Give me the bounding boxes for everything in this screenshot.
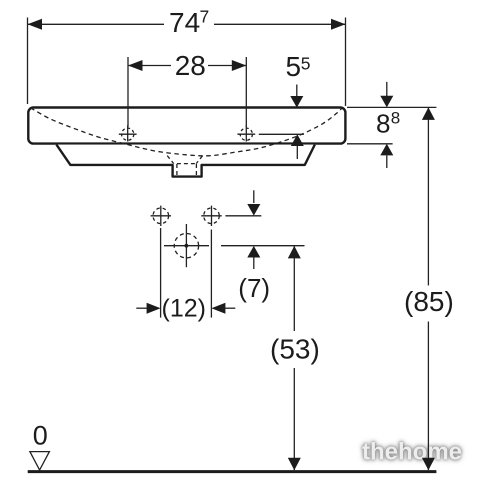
svg-text:5: 5 xyxy=(301,53,311,73)
extension line right 74.7 xyxy=(345,18,347,107)
mounting hole right xyxy=(201,206,221,226)
wire mounting hole level line xyxy=(225,215,261,217)
dashed drain pipe right xyxy=(195,164,197,176)
svg-text:(7): (7) xyxy=(238,273,270,303)
svg-text:74: 74 xyxy=(169,7,200,38)
dashed drain funnel right xyxy=(196,156,202,164)
wire dimension line 28 xyxy=(128,65,246,67)
svg-text:thehome: thehome xyxy=(362,439,462,466)
arrow up (7) xyxy=(247,246,260,258)
svg-text:(85): (85) xyxy=(404,286,454,317)
faucet hole right xyxy=(237,125,255,141)
extension line below left mounting hole xyxy=(160,228,162,318)
dimension line (12) right with arrow xyxy=(211,303,225,314)
washbasin rim outline (front view) xyxy=(28,108,345,144)
extension line left 28 xyxy=(127,57,129,127)
svg-text:(12): (12) xyxy=(162,294,206,322)
arrow down 8.8 xyxy=(386,82,388,97)
arrow left 28 xyxy=(128,60,143,71)
arrow down (53) xyxy=(288,458,301,471)
arrow up 8.8 xyxy=(380,144,393,156)
svg-text:5: 5 xyxy=(286,51,302,82)
svg-text:28: 28 xyxy=(175,50,206,81)
drain circle (dashed) with crosshair xyxy=(164,224,209,267)
faucet hole left xyxy=(119,125,137,141)
datum triangle xyxy=(30,452,50,470)
svg-text:7: 7 xyxy=(200,6,210,26)
arrow left 74.7 xyxy=(28,19,43,30)
extension line right (rim bottom level) xyxy=(347,143,393,145)
extension line top right (rim top level) xyxy=(347,106,436,108)
ground line xyxy=(28,470,437,473)
extension line left 74.7 xyxy=(27,18,29,105)
dimension line (12) left with arrow xyxy=(136,307,149,309)
dashed drain pipe left xyxy=(176,164,178,176)
dashed drain pipe top xyxy=(177,163,197,165)
dimension line (85) vertical xyxy=(427,107,429,285)
svg-text:8: 8 xyxy=(391,109,400,128)
extension line right 28 xyxy=(245,57,247,127)
arrow up (53) xyxy=(288,246,301,259)
arrow up (85) xyxy=(422,107,435,120)
svg-text:0: 0 xyxy=(33,421,48,451)
arrow down 5.5 to rim top xyxy=(296,85,298,98)
dashed drain funnel left xyxy=(167,156,174,164)
wire drain center level line xyxy=(221,245,305,247)
arrow right 74.7 xyxy=(331,19,346,30)
svg-text:(53): (53) xyxy=(270,333,320,364)
wire dimension line 74.7 top xyxy=(28,23,346,25)
wire faucet hole level line xyxy=(259,133,304,135)
arrow up to faucet level xyxy=(291,134,304,146)
extension line below right mounting hole xyxy=(210,230,212,318)
washbasin body outline with drain stub xyxy=(56,145,314,177)
dimension line (53) vertical xyxy=(293,246,295,331)
arrow right 28 xyxy=(232,60,247,71)
dashed inner basin curve xyxy=(31,108,343,156)
arrow down (85) xyxy=(422,458,435,471)
svg-text:8: 8 xyxy=(376,109,390,139)
mounting hole left xyxy=(151,206,171,226)
arrow down (7) xyxy=(253,190,255,203)
